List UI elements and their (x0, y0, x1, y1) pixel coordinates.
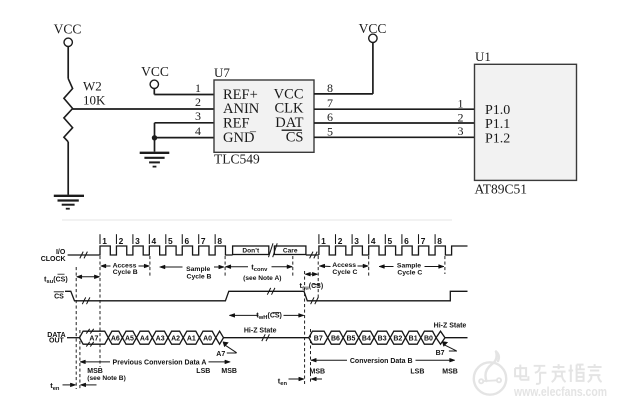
svg-text:7: 7 (327, 96, 333, 110)
svg-text:1: 1 (195, 81, 201, 95)
svg-text:U7: U7 (214, 65, 230, 80)
svg-text:B5: B5 (346, 335, 355, 342)
svg-text:Sample: Sample (397, 262, 421, 269)
svg-text:Previous Conversion Data A: Previous Conversion Data A (113, 360, 207, 367)
svg-text:2: 2 (195, 95, 201, 109)
svg-text:Cycle C: Cycle C (332, 269, 357, 276)
svg-text:3: 3 (195, 109, 201, 123)
svg-text:2: 2 (119, 236, 124, 246)
svg-text:(see Note A): (see Note A) (243, 275, 281, 282)
svg-text:A2: A2 (171, 335, 180, 342)
svg-text:MSB: MSB (221, 368, 237, 375)
svg-text:B4: B4 (362, 335, 371, 342)
svg-text:7: 7 (201, 236, 206, 246)
svg-text:U1: U1 (475, 49, 491, 64)
svg-text:B1: B1 (409, 335, 418, 342)
svg-text:4: 4 (371, 236, 376, 246)
svg-text:A7: A7 (216, 351, 225, 358)
svg-text:I/O: I/O (56, 249, 66, 256)
svg-text:TLC549: TLC549 (214, 152, 260, 167)
svg-text:10K: 10K (83, 93, 106, 108)
svg-text:MSB: MSB (442, 368, 458, 375)
svg-text:A5: A5 (125, 335, 134, 342)
svg-text:6: 6 (184, 236, 189, 246)
svg-text:W2: W2 (83, 79, 102, 94)
svg-text:LSB: LSB (196, 368, 210, 375)
svg-text:3: 3 (354, 236, 359, 246)
svg-text:A0: A0 (203, 335, 212, 342)
svg-text:Hi-Z State: Hi-Z State (434, 323, 467, 330)
svg-text:Cycle C: Cycle C (397, 269, 422, 276)
svg-text:P1.1: P1.1 (485, 117, 510, 132)
svg-text:2: 2 (338, 236, 343, 246)
svg-text:AT89C51: AT89C51 (475, 182, 528, 197)
svg-text:6: 6 (404, 236, 409, 246)
svg-text:Care: Care (283, 247, 298, 254)
svg-text:MSB: MSB (310, 368, 326, 375)
svg-text:VCC: VCC (141, 64, 169, 79)
svg-text:LSB: LSB (410, 368, 424, 375)
svg-text:Hi-Z State: Hi-Z State (244, 327, 277, 334)
svg-text:2: 2 (458, 110, 464, 124)
svg-text:GND: GND (223, 130, 254, 146)
svg-text:CS: CS (54, 294, 64, 301)
svg-text:MSB: MSB (87, 368, 103, 375)
svg-text:Conversion Data B: Conversion Data B (350, 358, 413, 365)
svg-text:CS: CS (286, 130, 304, 146)
svg-text:5: 5 (388, 236, 393, 246)
svg-text:Cycle B: Cycle B (113, 269, 138, 276)
svg-text:Don’t: Don’t (242, 247, 260, 254)
svg-text:1: 1 (458, 97, 464, 111)
svg-text:4: 4 (152, 236, 157, 246)
svg-text:OUT: OUT (49, 337, 65, 344)
svg-text:B3: B3 (378, 335, 387, 342)
svg-text:B7: B7 (314, 335, 323, 342)
svg-text:B0: B0 (424, 335, 433, 342)
svg-text:A1: A1 (187, 335, 196, 342)
svg-text:www.elecfans.com: www.elecfans.com (513, 385, 607, 399)
svg-text:1: 1 (321, 236, 326, 246)
svg-text:B6: B6 (331, 335, 340, 342)
svg-text:(see Note B): (see Note B) (87, 375, 125, 382)
svg-text:P1.0: P1.0 (485, 103, 510, 118)
svg-text:4: 4 (195, 124, 201, 138)
svg-text:A4: A4 (140, 335, 149, 342)
svg-text:A3: A3 (156, 335, 165, 342)
svg-text:CLOCK: CLOCK (41, 256, 66, 263)
svg-text:VCC: VCC (54, 22, 82, 37)
svg-text:8: 8 (437, 236, 442, 246)
svg-text:5: 5 (327, 124, 333, 138)
svg-text:P1.2: P1.2 (485, 131, 510, 146)
svg-text:Cycle B: Cycle B (187, 273, 212, 280)
svg-text:3: 3 (135, 236, 140, 246)
svg-text:8: 8 (217, 236, 222, 246)
svg-text:7: 7 (421, 236, 426, 246)
svg-text:Sample: Sample (186, 266, 210, 273)
svg-text:B7: B7 (436, 350, 445, 357)
svg-text:A7: A7 (89, 335, 98, 342)
svg-text:A6: A6 (111, 335, 120, 342)
svg-text:1: 1 (102, 236, 107, 246)
svg-text:B2: B2 (393, 335, 402, 342)
svg-text:3: 3 (458, 124, 464, 138)
svg-text:6: 6 (327, 110, 333, 124)
svg-text:5: 5 (168, 236, 173, 246)
